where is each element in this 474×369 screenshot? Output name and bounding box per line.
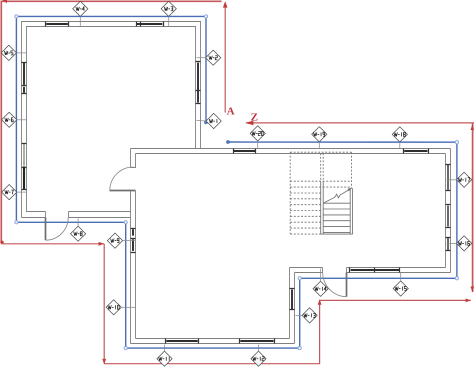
window right room right wall 3 glazing bbox=[447, 238, 449, 250]
wall middle top outer bbox=[131, 148, 451, 150]
red arrow down right side bbox=[471, 287, 474, 293]
window right room right wall 1 glazing bbox=[447, 165, 449, 190]
wall bottom room right outer bbox=[294, 273, 296, 344]
window left wall upper ticks bbox=[22, 63, 27, 94]
wall room1 bottom outer right of door bbox=[69, 217, 131, 219]
label diamond W-10 bbox=[106, 300, 135, 315]
stair direction arrowhead bbox=[348, 188, 352, 191]
door right room swing arc bbox=[323, 273, 347, 297]
red arrow pointing right at corner bbox=[99, 242, 104, 246]
red dimension line bottom bbox=[104, 363, 319, 365]
window bottom room bottom wall 1 glazing bbox=[166, 340, 197, 342]
wall interior vertical upper stub bbox=[131, 149, 136, 168]
window middle top wall 2 ticks bbox=[404, 149, 429, 154]
label diamond W-14 bbox=[313, 269, 328, 297]
stair right edge dashed upper bbox=[351, 152, 353, 188]
red dimension line below right room bbox=[320, 299, 471, 301]
wall interior vertical lower jamb cap bbox=[131, 190, 136, 192]
stair bottom edge solid bbox=[321, 233, 353, 235]
window top wall B glazing bbox=[137, 23, 162, 25]
wall bottom room bottom inner bbox=[136, 338, 290, 340]
window right room right wall 2 ticks bbox=[446, 205, 451, 228]
red dimension line right side bbox=[472, 124, 474, 293]
label diamond W-2 bbox=[197, 50, 221, 65]
blue grip vertex circle bottom room SW bbox=[124, 347, 127, 350]
stair direction line with break bbox=[323, 188, 351, 203]
red dimension boundary top bbox=[1, 0, 222, 2]
window bottom room bottom wall 1 ticks bbox=[166, 339, 199, 344]
red arrow Z left bbox=[245, 121, 253, 126]
blue grip vertex circle bottom-right of right room bbox=[455, 277, 458, 280]
section line A bbox=[224, 3, 226, 113]
blue grip vertex circle room1 NW bbox=[15, 15, 18, 18]
stair dashed treads left flight bbox=[290, 193, 321, 234]
stair solid treads right flight bbox=[323, 203, 350, 232]
wall right room right outer bbox=[450, 149, 452, 273]
red arrow A up bbox=[223, 1, 228, 7]
window room1 right wall ticks bbox=[196, 62, 201, 104]
section line Z bbox=[246, 122, 474, 124]
blue grip vertex circle room1 NE bbox=[204, 15, 207, 18]
window middle top wall 2 glazing bbox=[404, 150, 427, 152]
window bottom room bottom wall 2 ticks bbox=[240, 339, 275, 344]
window room1 right wall glazing bbox=[197, 63, 199, 103]
wall room1 bottom inner right of door bbox=[69, 211, 131, 213]
label diamond W-1 bbox=[197, 113, 222, 128]
label diamond W-12 bbox=[251, 345, 266, 367]
red arrow pointing up bbox=[318, 299, 322, 304]
blue grip vertex circle left jog bbox=[15, 221, 18, 224]
red arrow up right side bbox=[471, 124, 474, 130]
window left wall upper glazing bbox=[23, 63, 25, 85]
window left wall lower glazing bbox=[23, 144, 25, 165]
stair left edge dashed bbox=[289, 152, 291, 234]
door right room leaf bbox=[346, 273, 348, 297]
door interior leaf bbox=[110, 190, 136, 192]
wall room1 inner rectangle bbox=[27, 27, 196, 212]
label diamond W-20 bbox=[250, 126, 265, 149]
label diamond W-9 bbox=[107, 233, 135, 248]
label diamond W-16 bbox=[447, 236, 472, 251]
blue grip vertex circle step corner bbox=[298, 277, 301, 280]
label diamond W-7 bbox=[2, 185, 26, 200]
wall right room bottom inner left of door bbox=[290, 267, 323, 269]
blue grip vertex circle bottom room SE bbox=[298, 347, 301, 350]
window middle top wall 1 glazing bbox=[234, 150, 255, 152]
wall bottom room bottom outer bbox=[131, 343, 295, 345]
wall middle top inner bbox=[136, 153, 446, 155]
label diamond W-8 bbox=[71, 219, 86, 242]
window right room right wall 3 ticks bbox=[446, 238, 451, 251]
window right room bottom wall ticks bbox=[350, 268, 400, 273]
blue grip vertex circle notch corner bbox=[124, 221, 127, 224]
red dimension boundary left bbox=[0, 1, 2, 242]
label diamond W-13 bbox=[296, 308, 318, 323]
label diamond W-11 bbox=[157, 345, 172, 367]
red dimension line to W-8 area bbox=[1, 243, 104, 245]
red arrow pointing down at bottom bbox=[102, 359, 106, 364]
wall room1 outer left+top+right bbox=[22, 22, 201, 218]
blue grip end dot at node W-20 side bbox=[226, 140, 230, 144]
stair right stringer double line bbox=[350, 188, 352, 234]
label diamond W-5 bbox=[1, 45, 26, 60]
label diamond W-4 bbox=[73, 1, 88, 26]
red dot left-bottom bbox=[0, 241, 3, 244]
window right room right wall 2 glazing bbox=[447, 206, 449, 227]
blue grip vertex circle top-right of right room bbox=[455, 141, 458, 144]
label diamond W-3 bbox=[161, 1, 176, 26]
red arrow top-left bbox=[3, 0, 8, 3]
window left wall lower ticks bbox=[22, 144, 27, 190]
window bottom room left wall ticks bbox=[131, 229, 136, 253]
svg-text:A: A bbox=[227, 106, 235, 118]
door exterior room1 leaf bbox=[45, 218, 47, 241]
wall bottom room right inner bbox=[289, 268, 291, 339]
stair middle stringer double line bbox=[321, 181, 324, 234]
window bottom room bottom wall 2 glazing bbox=[240, 340, 273, 342]
window right room bottom wall glazing bbox=[351, 269, 399, 271]
blue grip end dot at node W-1 side bbox=[204, 120, 208, 124]
window bottom room right wall glazing bbox=[291, 290, 293, 310]
stair dashed treads full width bbox=[290, 181, 351, 187]
stair middle rail dashed upper bbox=[321, 153, 324, 181]
window top wall A glazing bbox=[46, 23, 68, 25]
window bottom room left wall glazing bbox=[132, 229, 134, 235]
wall right room bottom right of door bbox=[347, 268, 451, 273]
stair top edge dashed bbox=[290, 151, 351, 153]
wall room1 bottom door right jamb bbox=[68, 212, 70, 218]
window middle top wall 1 ticks bbox=[234, 149, 256, 154]
wall right room right inner bbox=[445, 154, 447, 268]
door interior swing arc bbox=[110, 167, 134, 191]
wall right room bottom outer left of door bbox=[295, 268, 323, 273]
red dimension line down left of bottom room bbox=[103, 244, 105, 364]
label diamond W-15 bbox=[393, 273, 408, 297]
red dimension line up right of bottom room bbox=[319, 300, 321, 364]
red arrow pointing right bbox=[466, 299, 471, 303]
window bottom room right wall ticks bbox=[290, 289, 295, 310]
label diamond W-17 bbox=[447, 172, 472, 187]
door exterior room1 swing arc bbox=[46, 218, 69, 241]
label diamond W-6 bbox=[2, 112, 26, 127]
window top wall B ticks bbox=[137, 22, 164, 27]
svg-text:Z: Z bbox=[251, 111, 258, 123]
wall room1 bottom outer left of door bbox=[22, 212, 46, 218]
wall interior vertical lower outer bbox=[130, 191, 132, 344]
window right room right wall 1 ticks bbox=[446, 165, 451, 191]
label diamond W-19 bbox=[312, 127, 327, 149]
label diamond W-18 bbox=[392, 127, 407, 149]
window top wall A ticks bbox=[46, 22, 69, 27]
wall interior vertical lower inner bbox=[135, 191, 137, 339]
